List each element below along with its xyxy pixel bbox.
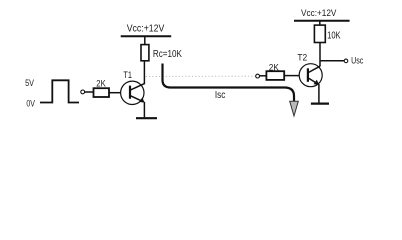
ground (T1 emitter) — [136, 117, 157, 119]
svg-text:Usc: Usc — [351, 55, 363, 66]
svg-text:Rc=10K: Rc=10K — [153, 49, 182, 60]
input terminal node — [81, 90, 85, 94]
transistor T2 — [299, 64, 322, 87]
svg-text:Vcc:+12V: Vcc:+12V — [127, 24, 165, 35]
resistor R1 (2K, base of T1) — [94, 88, 110, 97]
svg-text:5V: 5V — [25, 78, 35, 88]
node (stage-2 input terminal) — [256, 74, 260, 78]
resistor R2 (2K, base of T2) — [266, 71, 284, 80]
svg-text:Isc: Isc — [215, 90, 226, 101]
wire (Rc top to rail) — [144, 36, 146, 44]
wire (dotted coupling, T1 collector to stage 2) — [146, 75, 256, 77]
wire (Usc output tap) — [320, 60, 344, 62]
svg-text:Vcc:+12V: Vcc:+12V — [301, 8, 337, 19]
node Usc terminal — [344, 59, 348, 63]
resistor Rc (vertical box) — [141, 45, 149, 61]
svg-text:T2: T2 — [297, 53, 307, 63]
svg-text:0V: 0V — [26, 99, 35, 109]
svg-text:T1: T1 — [123, 70, 132, 80]
Isc current path arrow (thick) — [163, 64, 295, 106]
ground (T2 emitter) — [311, 102, 329, 104]
power rail Vcc:+12V (right) — [294, 20, 350, 22]
wire (T1 collector up to Rc) — [143, 61, 145, 85]
resistor 10K (vertical box) — [314, 25, 325, 42]
wire (T1 emitter down) — [143, 102, 145, 118]
power rail Vcc:+12V (left) — [121, 35, 172, 37]
transistor T1 — [121, 81, 145, 104]
wire — [260, 75, 267, 77]
wire — [85, 91, 94, 93]
Isc arrowhead — [290, 101, 299, 116]
svg-text:2K: 2K — [96, 78, 106, 88]
svg-text:10K: 10K — [327, 30, 341, 41]
wire (10K top to rail) — [319, 21, 321, 25]
wire — [284, 75, 299, 77]
wire (T2 emitter down) — [318, 84, 320, 103]
svg-text:2K: 2K — [269, 62, 280, 72]
wire (T2 collector up to 10K) — [319, 43, 321, 67]
wire — [109, 92, 121, 94]
pulse waveform source — [40, 80, 79, 102]
